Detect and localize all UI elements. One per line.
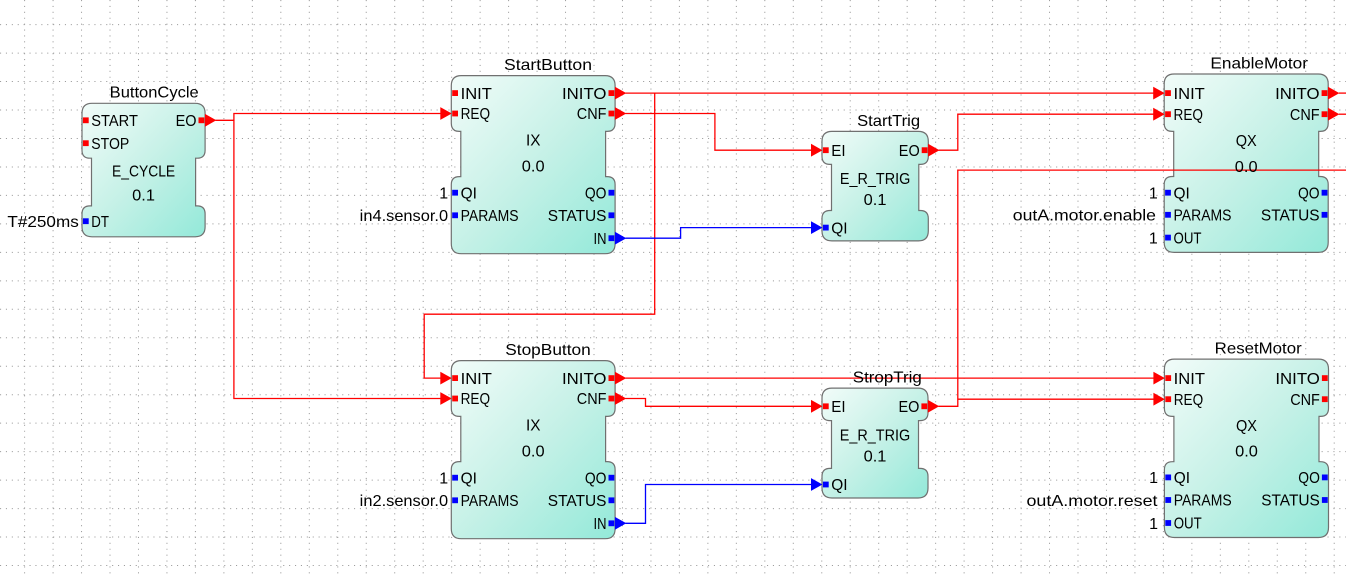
svg-text:IN: IN — [594, 231, 607, 248]
svg-text:EO: EO — [176, 113, 197, 130]
svg-text:EI: EI — [831, 399, 845, 416]
svg-text:StartTrig: StartTrig — [857, 113, 920, 130]
svg-text:T#250ms: T#250ms — [7, 214, 78, 231]
svg-text:1: 1 — [439, 471, 448, 488]
svg-text:CNF: CNF — [577, 391, 607, 408]
svg-text:DT: DT — [91, 214, 109, 231]
svg-text:PARAMS: PARAMS — [1174, 493, 1232, 510]
svg-text:QI: QI — [1174, 185, 1190, 202]
svg-text:QI: QI — [831, 220, 847, 237]
svg-text:in4.sensor.0: in4.sensor.0 — [360, 208, 449, 225]
svg-text:EO: EO — [899, 143, 920, 160]
svg-text:QI: QI — [461, 185, 477, 202]
svg-text:INIT: INIT — [461, 371, 493, 388]
svg-text:REQ: REQ — [461, 391, 491, 408]
svg-text:PARAMS: PARAMS — [461, 493, 519, 510]
svg-text:0.0: 0.0 — [1235, 443, 1258, 460]
svg-text:REQ: REQ — [1174, 392, 1204, 409]
svg-text:INITO: INITO — [562, 86, 607, 103]
svg-text:outA.motor.reset: outA.motor.reset — [1027, 493, 1159, 510]
svg-text:INITO: INITO — [1275, 371, 1320, 388]
svg-text:EO: EO — [899, 399, 920, 416]
svg-text:1: 1 — [1149, 230, 1158, 247]
svg-text:ResetMotor: ResetMotor — [1215, 341, 1303, 358]
svg-text:STOP: STOP — [91, 136, 129, 153]
svg-text:QI: QI — [831, 477, 847, 494]
svg-text:QO: QO — [1298, 185, 1320, 202]
svg-text:CNF: CNF — [1290, 392, 1320, 409]
svg-text:OUT: OUT — [1174, 230, 1202, 247]
svg-text:IN: IN — [594, 516, 607, 533]
svg-text:EnableMotor: EnableMotor — [1210, 55, 1308, 72]
svg-text:0.0: 0.0 — [522, 444, 545, 461]
svg-text:in2.sensor.0: in2.sensor.0 — [360, 493, 449, 510]
svg-text:outA.motor.enable: outA.motor.enable — [1013, 208, 1156, 225]
svg-text:0.1: 0.1 — [864, 449, 887, 466]
svg-text:StropTrig: StropTrig — [853, 370, 922, 387]
svg-text:REQ: REQ — [461, 106, 491, 123]
svg-text:OUT: OUT — [1174, 516, 1202, 533]
svg-text:STATUS: STATUS — [548, 493, 607, 510]
svg-text:QX: QX — [1236, 133, 1258, 150]
svg-text:ButtonCycle: ButtonCycle — [110, 85, 199, 102]
svg-text:IX: IX — [526, 133, 541, 150]
svg-text:INITO: INITO — [1275, 86, 1320, 103]
svg-text:StartButton: StartButton — [504, 57, 592, 74]
svg-text:QO: QO — [585, 470, 607, 487]
svg-text:1: 1 — [1149, 470, 1158, 487]
svg-text:START: START — [91, 113, 138, 130]
svg-text:INIT: INIT — [1174, 86, 1206, 103]
svg-text:E_R_TRIG: E_R_TRIG — [840, 171, 910, 188]
svg-text:PARAMS: PARAMS — [1174, 208, 1232, 225]
svg-text:QI: QI — [1174, 470, 1190, 487]
svg-text:EI: EI — [831, 143, 845, 160]
svg-text:CNF: CNF — [577, 106, 607, 123]
svg-text:1: 1 — [1149, 516, 1158, 533]
svg-text:INIT: INIT — [461, 86, 493, 103]
svg-text:REQ: REQ — [1174, 107, 1204, 124]
svg-text:0.1: 0.1 — [132, 187, 155, 204]
svg-text:1: 1 — [439, 186, 448, 203]
svg-text:QI: QI — [461, 470, 477, 487]
svg-text:1: 1 — [1149, 186, 1158, 203]
svg-text:INITO: INITO — [562, 371, 607, 388]
svg-text:E_CYCLE: E_CYCLE — [112, 164, 175, 181]
svg-text:PARAMS: PARAMS — [461, 208, 519, 225]
svg-text:CNF: CNF — [1290, 107, 1320, 124]
svg-text:STATUS: STATUS — [548, 208, 607, 225]
svg-text:INIT: INIT — [1174, 371, 1206, 388]
svg-text:QX: QX — [1236, 418, 1258, 435]
svg-text:StopButton: StopButton — [505, 342, 591, 359]
svg-text:0.0: 0.0 — [1235, 159, 1258, 176]
svg-text:IX: IX — [526, 418, 541, 435]
svg-text:STATUS: STATUS — [1261, 493, 1320, 510]
svg-text:QO: QO — [585, 185, 607, 202]
svg-text:STATUS: STATUS — [1261, 208, 1320, 225]
svg-text:0.1: 0.1 — [864, 192, 887, 209]
svg-text:E_R_TRIG: E_R_TRIG — [840, 427, 910, 444]
svg-text:QO: QO — [1298, 470, 1320, 487]
svg-text:0.0: 0.0 — [522, 159, 545, 176]
